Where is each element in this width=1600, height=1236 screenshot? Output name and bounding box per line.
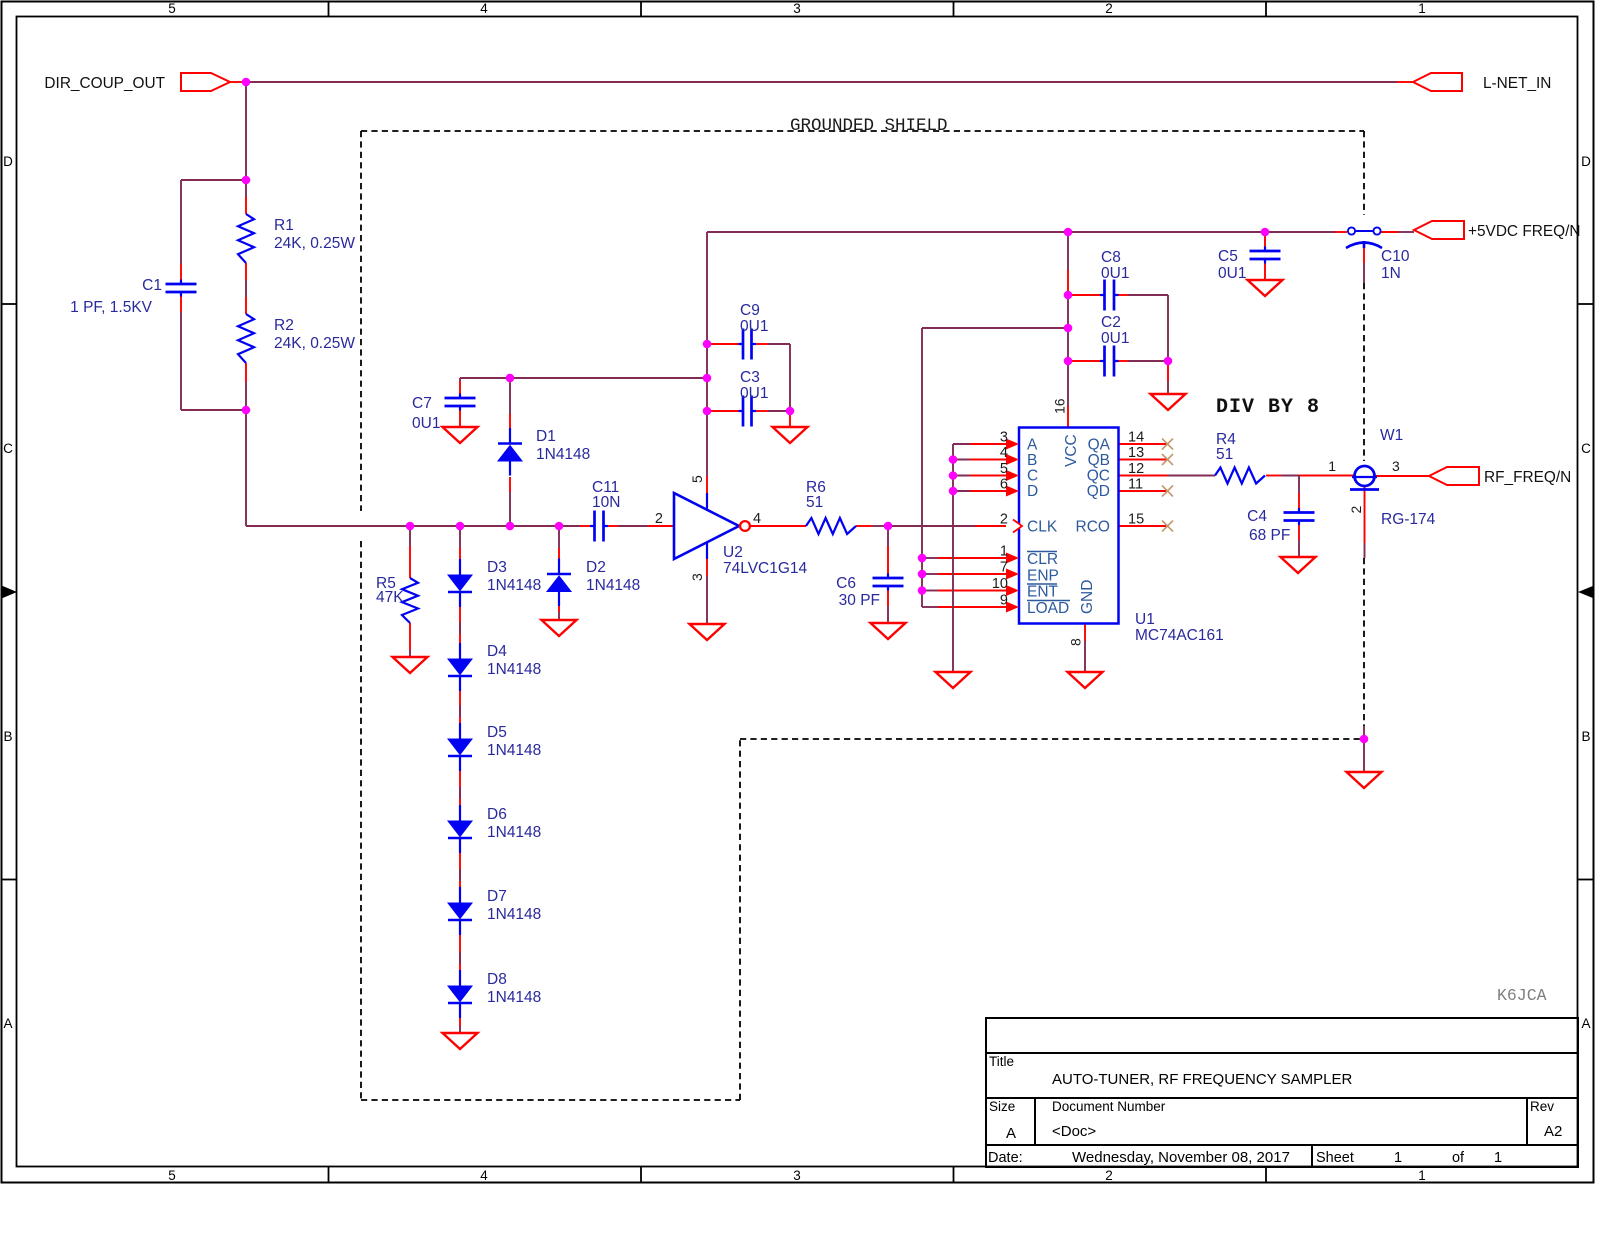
svg-text:0U1: 0U1 — [1101, 265, 1129, 282]
zone tick — [1578, 303, 1594, 305]
svg-text:C2: C2 — [1101, 314, 1121, 331]
wire QA pin 14 stub — [1119, 443, 1168, 445]
svg-text:0U1: 0U1 — [740, 385, 768, 402]
svg-text:GROUNDED SHIELD: GROUNDED SHIELD — [790, 116, 948, 136]
grounded shield outline left lower — [360, 541, 362, 1100]
wire +5V rail vertical x=707 — [706, 232, 708, 411]
capacitor C9 — [739, 343, 744, 345]
svg-text:C8: C8 — [1101, 249, 1121, 266]
svg-text:+5VDC FREQ/N: +5VDC FREQ/N — [1468, 223, 1580, 240]
svg-text:3: 3 — [793, 1168, 801, 1183]
ground D8 — [443, 1033, 478, 1049]
svg-text:51: 51 — [1216, 446, 1233, 463]
wire ENP pin 7 — [922, 573, 938, 575]
svg-text:Document Number: Document Number — [1052, 1099, 1166, 1114]
grounded shield outline right segment 1 — [1363, 131, 1365, 215]
wire R5 branch — [409, 526, 411, 546]
node junction 790,411 — [786, 407, 795, 416]
svg-text:1: 1 — [1328, 458, 1336, 474]
svg-text:12: 12 — [1128, 461, 1144, 477]
wire W1 pin 2 shield — [1364, 486, 1366, 543]
node junction 707,411 — [703, 407, 712, 416]
zone tick — [640, 2, 642, 17]
wire C1 bottom branch — [180, 292, 182, 312]
wire C9/C3 ground stub — [789, 413, 791, 427]
svg-text:K6JCA: K6JCA — [1497, 986, 1547, 1005]
svg-text:<Doc>: <Doc> — [1052, 1123, 1096, 1140]
wire U2 pin5 vcc — [706, 411, 708, 476]
node junction 410,526 — [406, 522, 415, 531]
svg-text:0U1: 0U1 — [1218, 265, 1246, 282]
wire R1 top stub — [245, 197, 247, 214]
node junction 460,526 — [456, 522, 465, 531]
node junction 1068,295 — [1064, 291, 1073, 300]
grounded shield outline left upper — [360, 131, 362, 511]
svg-text:L-NET_IN: L-NET_IN — [1483, 75, 1551, 92]
svg-text:2: 2 — [655, 511, 663, 527]
U1 pin B arrow — [1006, 454, 1019, 465]
svg-text:QD: QD — [1087, 483, 1110, 500]
ground C8/C2 — [1151, 394, 1186, 410]
svg-text:3: 3 — [1000, 430, 1008, 446]
svg-text:14: 14 — [1128, 430, 1144, 446]
svg-text:1N4148: 1N4148 — [487, 742, 541, 759]
svg-text:5: 5 — [168, 1168, 176, 1183]
svg-text:C: C — [3, 441, 13, 456]
svg-text:2: 2 — [1105, 1, 1113, 16]
svg-text:1: 1 — [1418, 1168, 1426, 1183]
wire U2 output to R6 — [751, 525, 806, 527]
svg-text:9: 9 — [1000, 593, 1008, 609]
node junction 707,344 — [703, 340, 712, 349]
svg-text:1 PF, 1.5KV: 1 PF, 1.5KV — [70, 299, 153, 316]
svg-text:QB: QB — [1088, 452, 1110, 469]
wire C1 top branch — [181, 179, 246, 181]
capacitor C1 — [180, 280, 182, 285]
svg-text:1: 1 — [1000, 544, 1008, 560]
resistor R5 — [402, 578, 418, 623]
node junction 922,574 — [918, 570, 927, 579]
svg-text:D3: D3 — [487, 559, 507, 576]
node junction 246,180 — [242, 176, 251, 185]
svg-text:16: 16 — [1052, 398, 1068, 414]
wire QB pin 13 stub — [1119, 459, 1168, 461]
wire C8/C2 left vertical x=1068 — [1067, 232, 1069, 270]
wire C6 branch — [887, 526, 889, 546]
svg-text:Rev: Rev — [1530, 1099, 1554, 1114]
svg-text:0U1: 0U1 — [740, 318, 768, 335]
svg-text:A: A — [3, 1016, 12, 1031]
svg-text:24K, 0.25W: 24K, 0.25W — [274, 335, 355, 352]
port RF_FREQ/N — [1429, 467, 1479, 485]
zone tick — [953, 1167, 955, 1183]
svg-text:U2: U2 — [723, 544, 743, 561]
svg-text:LOAD: LOAD — [1027, 600, 1069, 617]
node junction 953,459.5 — [949, 455, 958, 464]
wire QC pin 12 to R4 — [1119, 475, 1168, 477]
wire R6 to C6 junction — [856, 525, 872, 527]
svg-text:RG-174: RG-174 — [1381, 511, 1436, 528]
node junction 922,558 — [918, 554, 927, 563]
wire C9 loop — [709, 343, 741, 345]
node junction 1068,232 — [1064, 228, 1073, 237]
svg-text:0U1: 0U1 — [1101, 330, 1129, 347]
svg-text:68 PF: 68 PF — [1249, 527, 1290, 544]
capacitor C4 — [1298, 508, 1300, 513]
svg-text:B: B — [3, 729, 12, 744]
wire U2 pin3 gnd — [706, 559, 708, 576]
svg-text:47K: 47K — [376, 589, 404, 606]
port +5VDC FREQ/N — [1414, 221, 1464, 239]
resistor R2 — [238, 314, 254, 363]
svg-text:10: 10 — [992, 576, 1008, 592]
svg-text:2: 2 — [1105, 1168, 1113, 1183]
op-amp U2 inverter 74LVC1G14 — [674, 493, 739, 559]
capacitor C5 — [1264, 247, 1266, 252]
svg-text:CLR: CLR — [1027, 551, 1058, 568]
svg-text:0U1: 0U1 — [412, 415, 440, 432]
svg-text:QC: QC — [1087, 468, 1110, 485]
svg-text:AUTO-TUNER, RF FREQUENCY SAMPL: AUTO-TUNER, RF FREQUENCY SAMPLER — [1052, 1071, 1352, 1088]
node junction 510,526 — [506, 522, 515, 531]
svg-text:D7: D7 — [487, 888, 507, 905]
svg-text:4: 4 — [480, 1168, 488, 1183]
svg-text:3: 3 — [793, 1, 801, 16]
ground C7 — [443, 427, 478, 443]
ground D2 — [542, 620, 577, 636]
svg-text:4: 4 — [1000, 445, 1008, 461]
wire D2 branch — [558, 526, 560, 548]
svg-text:1: 1 — [1418, 1, 1426, 16]
svg-text:1N4148: 1N4148 — [586, 577, 640, 594]
U1 pin CLR arrow — [1006, 553, 1019, 564]
resistor R6 — [806, 518, 856, 534]
node junction 888,526 — [884, 522, 893, 531]
centre arrow right — [1578, 586, 1594, 599]
capacitor C7 — [459, 394, 461, 399]
U1 pin C arrow — [1006, 470, 1019, 481]
svg-text:C10: C10 — [1381, 248, 1410, 265]
node junction 1265,232 — [1261, 228, 1270, 237]
diode D1 — [509, 428, 511, 444]
svg-text:3: 3 — [1392, 458, 1400, 474]
U1 pin D arrow — [1006, 486, 1019, 497]
svg-text:QA: QA — [1088, 437, 1111, 454]
port DIR_COUP_OUT — [181, 73, 230, 91]
svg-text:MC74AC161: MC74AC161 — [1135, 627, 1224, 644]
svg-text:R1: R1 — [274, 217, 294, 234]
node junction 246,410 — [242, 406, 251, 415]
svg-text:A2: A2 — [1544, 1123, 1562, 1140]
diode D2 — [558, 559, 560, 575]
node junction 1168,361 — [1164, 357, 1173, 366]
node junction 510,378 — [506, 374, 515, 383]
grounded shield outline right segment 3 — [1363, 558, 1365, 726]
zone tick — [1578, 879, 1594, 881]
svg-text:C7: C7 — [412, 395, 432, 412]
wire ENT pin 10 — [922, 590, 938, 592]
svg-text:A: A — [1581, 1016, 1590, 1031]
zone tick — [640, 1167, 642, 1183]
svg-text:Sheet: Sheet — [1316, 1150, 1354, 1166]
capacitor C6 — [887, 574, 889, 579]
svg-text:15: 15 — [1128, 512, 1144, 528]
no-connect QA — [1162, 439, 1173, 450]
svg-text:W1: W1 — [1380, 427, 1403, 444]
svg-text:1N4148: 1N4148 — [487, 824, 541, 841]
wire main signal line y=526 — [246, 525, 580, 527]
svg-text:Title: Title — [989, 1054, 1014, 1069]
svg-text:1N4148: 1N4148 — [536, 446, 590, 463]
capacitor C2 — [1100, 360, 1105, 362]
svg-text:RCO: RCO — [1076, 519, 1110, 536]
svg-text:RF_FREQ/N: RF_FREQ/N — [1484, 469, 1571, 486]
ground U1 pin8 — [1068, 672, 1103, 688]
svg-text:7: 7 — [1000, 560, 1008, 576]
ground U2 pin3 — [690, 624, 725, 640]
node junction 707,378 — [703, 374, 712, 383]
svg-text:ENT: ENT — [1027, 584, 1059, 601]
svg-text:D: D — [1027, 483, 1038, 500]
svg-text:D2: D2 — [586, 559, 606, 576]
grounded shield outline right segment 2 — [1363, 283, 1365, 461]
U1 MC74AC161 counter — [1019, 428, 1119, 624]
U1 pin ENT arrow — [1006, 585, 1019, 596]
svg-text:1N: 1N — [1381, 265, 1401, 282]
wire CLR pin 1 — [922, 557, 938, 559]
svg-text:C1: C1 — [142, 277, 162, 294]
svg-text:VCC: VCC — [1063, 434, 1080, 467]
wire D3-D8 diode chain — [459, 526, 461, 548]
zone tick — [2, 303, 17, 305]
capacitor C11 — [590, 525, 595, 527]
svg-text:CLK: CLK — [1027, 519, 1058, 536]
U1 CLK wedge — [1013, 520, 1022, 533]
wire pin B — [953, 459, 970, 461]
diode D6 — [459, 805, 461, 821]
svg-text:10N: 10N — [592, 494, 620, 511]
grounded shield outline mid vertical — [739, 739, 741, 1100]
svg-text:A: A — [1027, 437, 1038, 454]
svg-text:13: 13 — [1128, 445, 1144, 461]
svg-text:D8: D8 — [487, 971, 507, 988]
svg-text:4: 4 — [753, 511, 761, 527]
svg-text:5: 5 — [689, 475, 705, 483]
U1 pin LOAD arrow — [1006, 602, 1019, 613]
svg-text:B: B — [1027, 452, 1037, 469]
node junction 246,82 — [242, 78, 251, 87]
wire R4 to W1 — [1266, 475, 1281, 477]
wire C10 shield lead — [1363, 247, 1365, 263]
wire shield node to ground — [1363, 726, 1365, 772]
wire U1 pin16 vcc — [1067, 361, 1069, 406]
wire pin A — [953, 443, 970, 445]
svg-text:D5: D5 — [487, 724, 507, 741]
wire top bus DIR_COUP_OUT to L-NET_IN — [230, 81, 246, 83]
capacitor C3 — [739, 410, 744, 412]
wire C5 branch — [1264, 232, 1266, 251]
svg-text:5: 5 — [1000, 461, 1008, 477]
diode D5 — [459, 723, 461, 739]
wire CLR/ENP/ENT/LOAD pullup rail y=328 — [922, 327, 1068, 329]
svg-text:4: 4 — [480, 1, 488, 16]
no-connect QB — [1162, 454, 1173, 465]
wire +5V feed horizontal y=378 — [460, 377, 707, 379]
svg-text:30 PF: 30 PF — [839, 592, 880, 609]
connector W1 coax — [1355, 466, 1375, 486]
svg-text:1: 1 — [1494, 1150, 1502, 1166]
svg-text:11: 11 — [1128, 477, 1143, 493]
diode D8 — [459, 970, 461, 986]
zone tick — [953, 2, 955, 17]
wire C11 to U2 input pin 2 — [606, 525, 619, 527]
svg-text:2: 2 — [1000, 512, 1008, 528]
grounded shield outline mid horizontal — [740, 738, 1360, 740]
svg-text:D: D — [3, 154, 13, 169]
wire C3 loop — [709, 410, 741, 412]
svg-text:D6: D6 — [487, 806, 507, 823]
zone tick — [328, 2, 330, 17]
centre arrow left — [2, 586, 18, 599]
wire C6 junction to U1 CLK — [888, 525, 975, 527]
zone tick — [328, 1167, 330, 1183]
diode D3 — [459, 559, 461, 575]
ground ABCD bus — [936, 672, 971, 688]
no-connect QD — [1162, 486, 1173, 497]
U1 pin ENP arrow — [1006, 569, 1019, 580]
wire QD pin 11 stub — [1119, 490, 1168, 492]
svg-text:Date:: Date: — [988, 1150, 1023, 1166]
resistor R4 — [1215, 468, 1265, 484]
diode D4 — [459, 643, 461, 659]
wire C8/C2 ground stub — [1167, 363, 1169, 381]
zone tick — [1265, 2, 1267, 17]
svg-text:ENP: ENP — [1027, 568, 1059, 585]
ground C6 — [871, 623, 906, 639]
resistor R1 — [238, 214, 254, 263]
svg-text:GND: GND — [1079, 580, 1096, 614]
wire C2 leads — [1070, 360, 1103, 362]
svg-text:DIV BY 8: DIV BY 8 — [1216, 396, 1320, 419]
ground R5 — [393, 657, 428, 673]
wire C8/C2 right vertical — [1167, 295, 1169, 361]
wire C7 stub — [459, 378, 461, 381]
capacitor C10 feed-through — [1348, 227, 1355, 234]
svg-text:D: D — [1581, 154, 1591, 169]
wire x=922 vertical — [921, 328, 923, 607]
svg-text:8: 8 — [1068, 638, 1084, 646]
svg-text:B: B — [1581, 729, 1590, 744]
wire x=953 vertical ABCD ground bus — [952, 444, 954, 672]
grounded shield outline top — [361, 130, 1364, 132]
svg-text:R2: R2 — [274, 317, 294, 334]
wire left vertical drop from top bus — [245, 82, 247, 197]
grounded shield outline bottom — [361, 1099, 740, 1101]
capacitor C8 — [1100, 294, 1105, 296]
wire vertical down to signal line — [245, 410, 247, 526]
wire U1 GND pin 8 — [1084, 623, 1086, 641]
svg-text:3: 3 — [689, 573, 705, 581]
svg-text:1N4148: 1N4148 — [487, 906, 541, 923]
wire RCO pin 15 stub — [1119, 525, 1168, 527]
node junction 559,526 — [555, 522, 564, 531]
svg-text:A: A — [1006, 1125, 1016, 1142]
svg-text:6: 6 — [1000, 477, 1008, 493]
port L-NET_IN — [1413, 73, 1462, 91]
svg-text:C6: C6 — [836, 575, 856, 592]
svg-text:of: of — [1452, 1150, 1465, 1166]
svg-text:U1: U1 — [1135, 611, 1155, 628]
ground shield — [1347, 772, 1382, 788]
svg-text:C9: C9 — [740, 302, 760, 319]
node junction 922,590.5 — [918, 586, 927, 595]
svg-text:24K, 0.25W: 24K, 0.25W — [274, 235, 355, 252]
zone tick — [2, 879, 17, 881]
svg-text:51: 51 — [806, 494, 823, 511]
wire pin D — [953, 490, 970, 492]
diode D7 — [459, 887, 461, 903]
wire LOAD pin 9 — [922, 606, 938, 608]
zone tick — [1265, 1167, 1267, 1183]
svg-text:1N4148: 1N4148 — [487, 661, 541, 678]
wire R2 bottom stub — [245, 363, 247, 382]
wire +5V rail y=232 — [707, 231, 1335, 233]
svg-text:1N4148: 1N4148 — [487, 577, 541, 594]
ground C9/C3 — [773, 427, 808, 443]
svg-text:Size: Size — [989, 1099, 1015, 1114]
ground C4 — [1281, 557, 1316, 573]
wire C10 to +5V port — [1381, 231, 1398, 233]
svg-text:Wednesday, November 08, 2017: Wednesday, November 08, 2017 — [1072, 1149, 1290, 1166]
svg-text:C: C — [1027, 468, 1038, 485]
svg-text:1N4148: 1N4148 — [487, 989, 541, 1006]
wire C8 leads — [1070, 294, 1103, 296]
svg-text:D1: D1 — [536, 428, 556, 445]
svg-text:74LVC1G14: 74LVC1G14 — [723, 560, 808, 577]
svg-text:C3: C3 — [740, 369, 760, 386]
node junction 953,491 — [949, 487, 958, 496]
svg-text:D4: D4 — [487, 643, 507, 660]
no-connect RCO — [1162, 521, 1173, 532]
svg-text:2: 2 — [1348, 506, 1364, 514]
wire R1-R2 link — [245, 263, 247, 280]
svg-text:5: 5 — [168, 1, 176, 16]
node junction 1068,328 — [1064, 324, 1073, 333]
wire D1 branch — [509, 492, 511, 526]
U1 pin A arrow — [1006, 439, 1019, 450]
title block — [986, 1018, 1578, 1167]
wire W1 pin 3 to RF port — [1374, 475, 1429, 477]
svg-text:C: C — [1581, 441, 1591, 456]
svg-text:1: 1 — [1394, 1150, 1402, 1166]
wire pin C — [953, 475, 970, 477]
node junction 1364,739 — [1360, 735, 1369, 744]
node junction 1068,361 — [1064, 357, 1073, 366]
ground C5 — [1248, 280, 1283, 296]
svg-text:C5: C5 — [1218, 248, 1238, 265]
svg-text:DIR_COUP_OUT: DIR_COUP_OUT — [44, 75, 165, 92]
node junction 953,475.5 — [949, 471, 958, 480]
wire C4 branch — [1298, 476, 1300, 494]
svg-text:C4: C4 — [1247, 508, 1267, 525]
